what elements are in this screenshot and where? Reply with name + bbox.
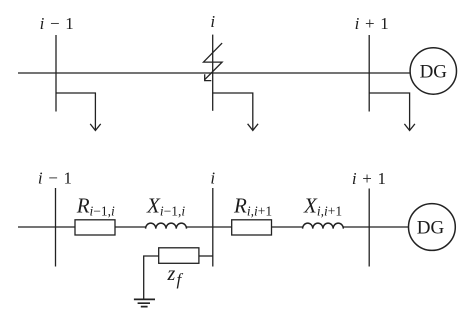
svg-text:i + 1: i + 1 — [355, 14, 390, 33]
wire: R to coil — [115, 226, 146, 228]
svg-text:Ri−1,i: Ri−1,i — [76, 194, 115, 219]
load arrowhead at bus i — [248, 124, 259, 131]
load arrowhead at bus i+1 — [404, 124, 415, 131]
fault bolt at bus i — [204, 43, 223, 80]
wire: coil to bus i — [187, 226, 232, 228]
wire: top feeder — [18, 72, 410, 74]
bus i (bottom) — [212, 188, 214, 267]
svg-text:i + 1: i + 1 — [352, 169, 387, 188]
svg-text:DG: DG — [420, 61, 448, 82]
svg-text:i: i — [210, 168, 215, 187]
wire: load tap at bus i+1 — [369, 93, 409, 131]
svg-text:i − 1: i − 1 — [38, 169, 73, 188]
bus i+1 (top) — [368, 35, 370, 112]
bus i+1 (bottom) — [368, 189, 370, 267]
wire: coil 2 to DG — [343, 226, 408, 228]
wire: R to coil 2 — [272, 226, 303, 228]
bus i-1 (top) — [55, 35, 57, 112]
wire: bottom line bus i-1 to R — [18, 226, 75, 228]
wire: load tap at bus i-1 — [56, 93, 95, 131]
resistor R_{i-1,i} — [75, 220, 115, 235]
fault impedance z_f — [159, 248, 199, 263]
svg-text:Xi,i+1: Xi,i+1 — [303, 194, 342, 219]
svg-text:Ri,i+1: Ri,i+1 — [233, 194, 272, 219]
inductor X_{i,i+1} — [303, 223, 344, 229]
generator DG (bottom) — [409, 204, 456, 251]
svg-text:DG: DG — [417, 217, 445, 238]
svg-text:zf: zf — [167, 263, 184, 289]
svg-text:Xi−1,i: Xi−1,i — [146, 194, 185, 219]
ground — [134, 299, 155, 306]
wire: load tap at bus i — [213, 93, 253, 130]
generator DG (top) — [410, 48, 456, 94]
resistor R_{i,i+1} — [232, 220, 272, 235]
inductor X_{i-1,i} — [146, 223, 187, 228]
load arrowhead at bus i-1 — [90, 124, 101, 131]
wire: fault branch right (bus i to z_f box) — [199, 255, 213, 257]
bus i-1 (bottom) — [55, 188, 57, 267]
fault bolt arrowhead — [205, 74, 212, 80]
svg-text:i: i — [210, 12, 215, 31]
svg-text:i − 1: i − 1 — [40, 14, 75, 33]
bus i (top) — [212, 35, 214, 111]
wire: fault branch left down to ground — [144, 256, 159, 299]
